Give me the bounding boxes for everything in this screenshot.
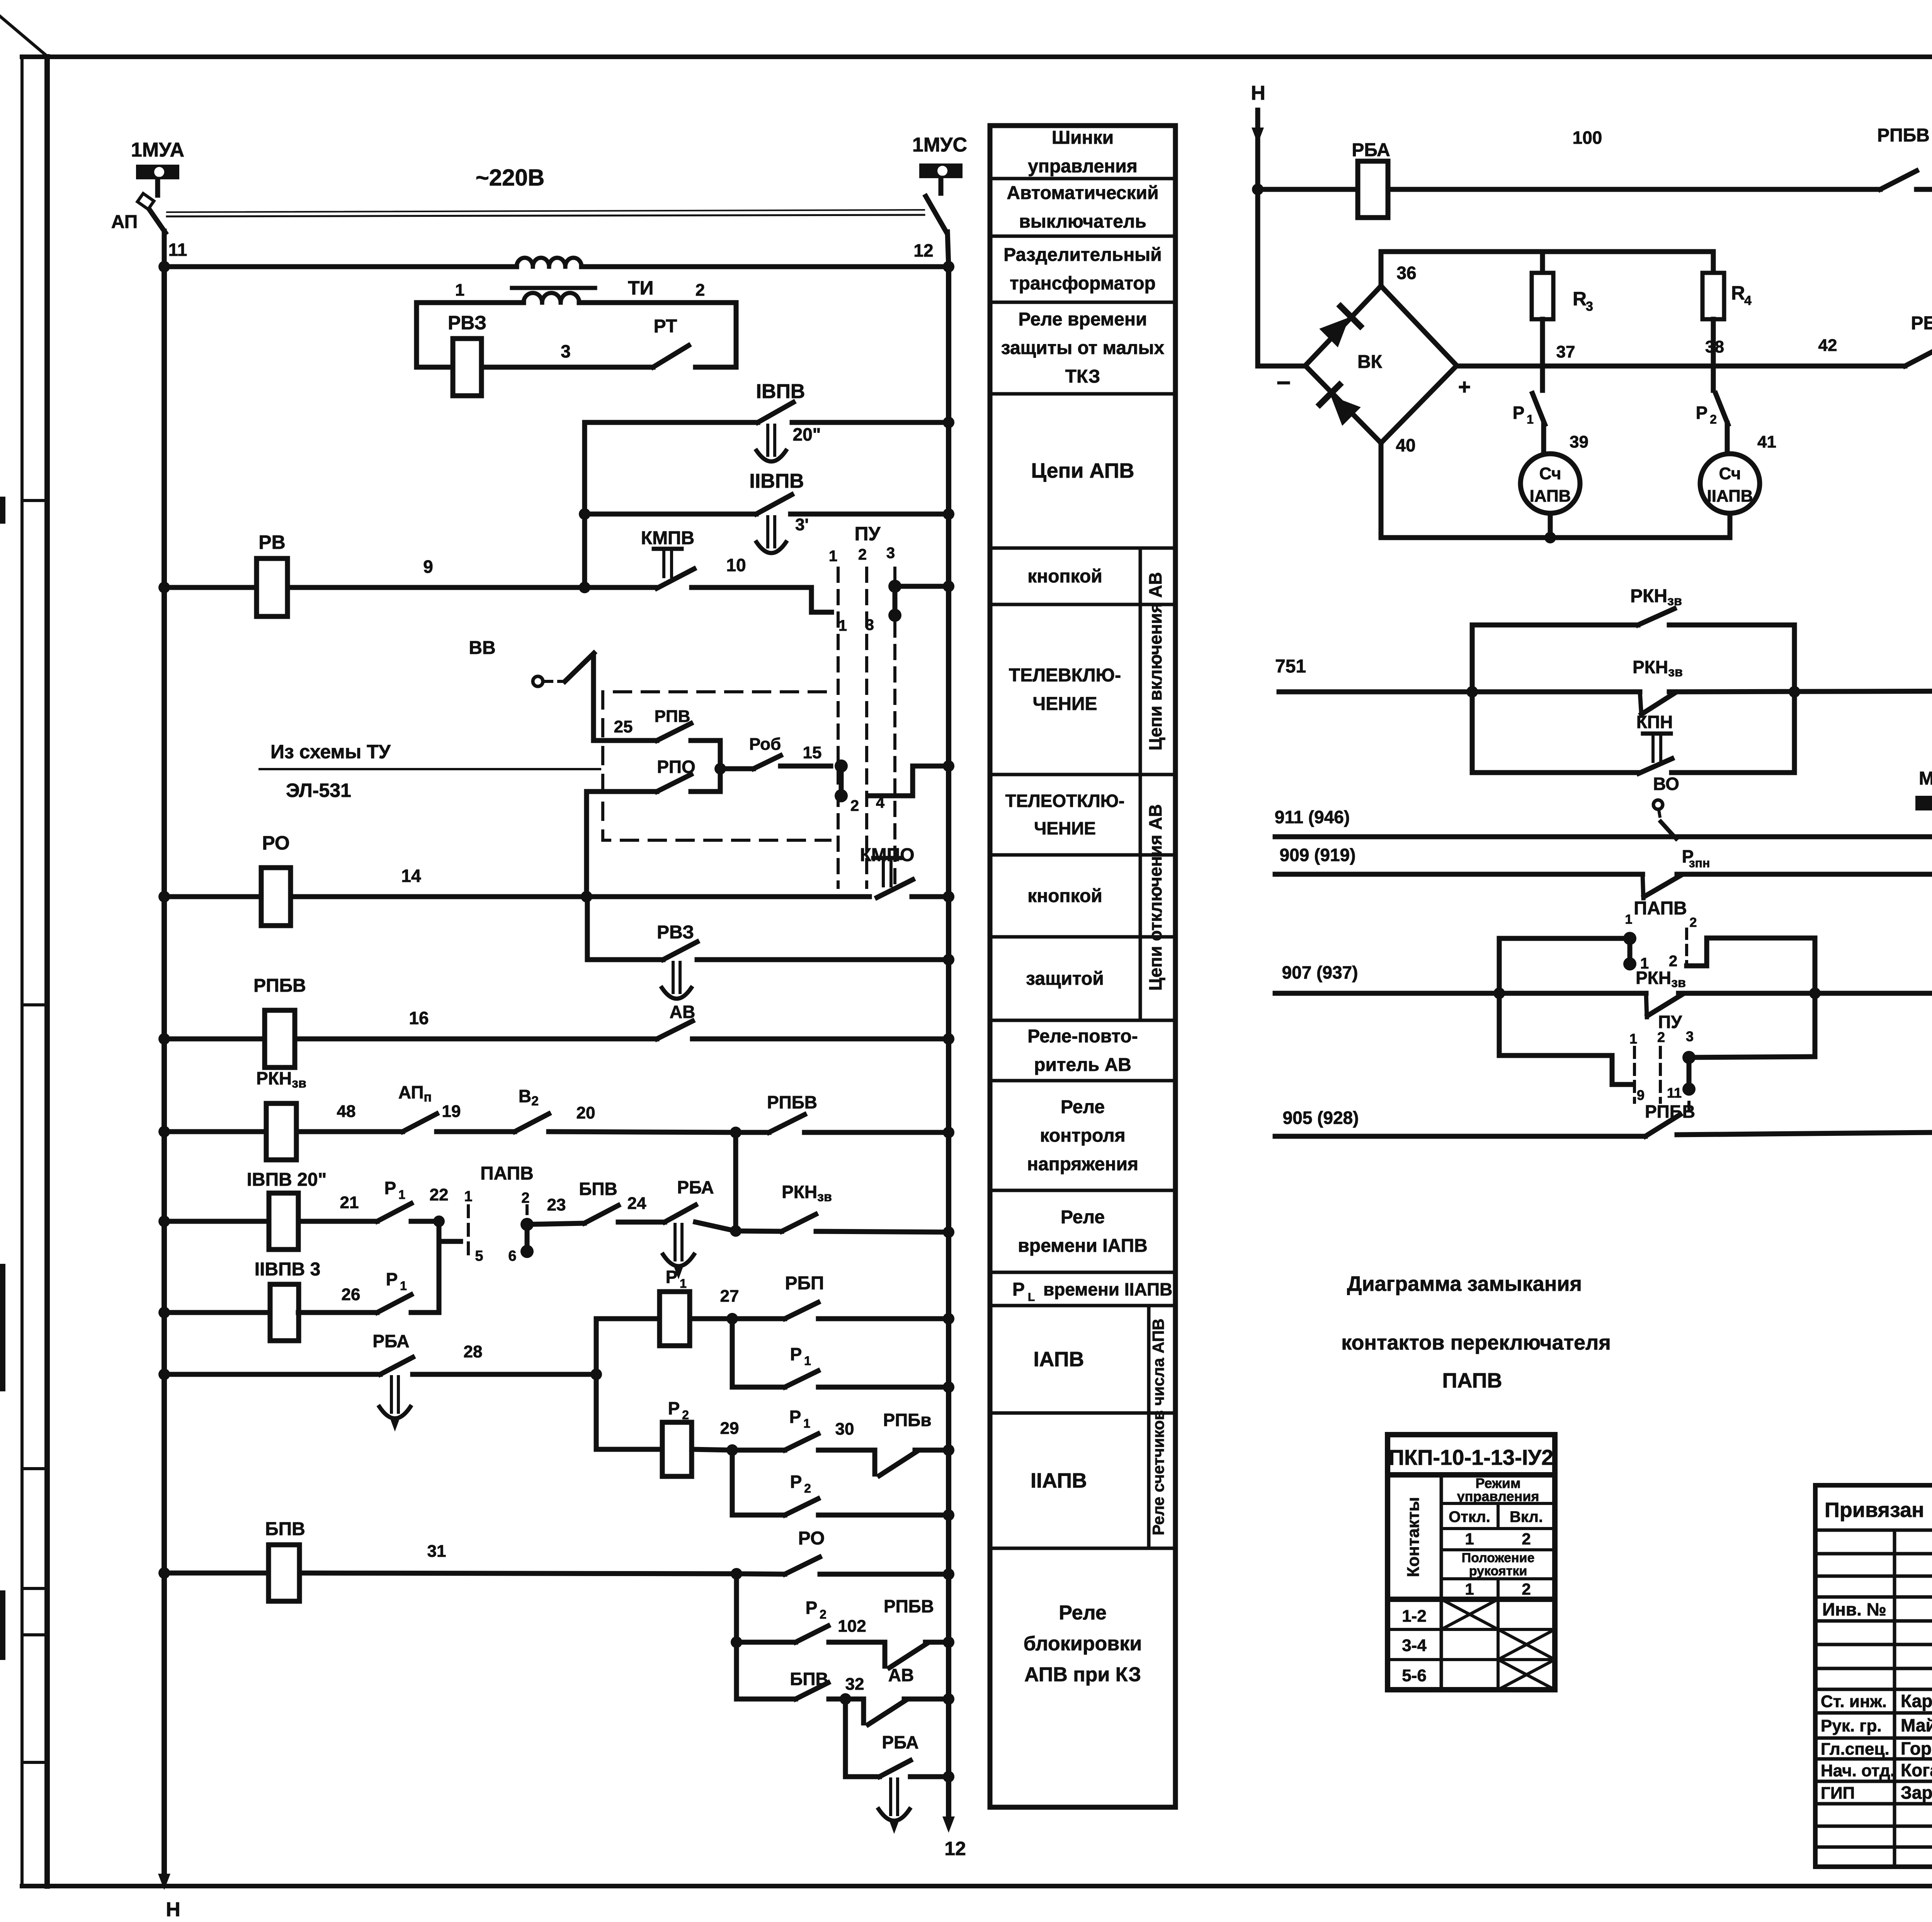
svg-text:2: 2: [521, 1190, 529, 1206]
svg-text:2: 2: [1657, 1029, 1665, 1045]
svg-text:IАПВ: IАПВ: [1530, 487, 1571, 506]
svg-text:Рук. гр.: Рук. гр.: [1821, 1716, 1882, 1735]
svg-text:2: 2: [858, 546, 867, 563]
contact Р2 row: [732, 1450, 785, 1515]
svg-text:ТЕЛЕОТКЛЮ-: ТЕЛЕОТКЛЮ-: [1005, 791, 1125, 811]
svg-text:Шинки: Шинки: [1052, 128, 1114, 148]
ПУ output wire: [1689, 1057, 1815, 1057]
svg-text:+: +: [1458, 375, 1471, 399]
ПАПВ contact bridge 2-6: [520, 1218, 534, 1231]
svg-text:времени IАПВ: времени IАПВ: [1018, 1236, 1147, 1256]
svg-text:Реле счетчиков числа АПВ: Реле счетчиков числа АПВ: [1149, 1319, 1167, 1536]
svg-text:РБА: РБА: [677, 1177, 714, 1197]
svg-text:19: 19: [442, 1102, 461, 1121]
rung 11: wire left bus to ТИ: [164, 264, 517, 269]
svg-text:ПУ: ПУ: [854, 523, 881, 545]
svg-text:3': 3': [795, 515, 809, 534]
svg-text:Вкл.: Вкл.: [1510, 1508, 1543, 1525]
scan artifact: left paper edge marks: [0, 497, 5, 524]
svg-text:1: 1: [680, 1277, 687, 1290]
svg-text:1-2: 1-2: [1402, 1607, 1427, 1626]
right bus: [946, 267, 951, 1816]
svg-text:20": 20": [793, 424, 821, 444]
svg-text:30: 30: [835, 1420, 854, 1439]
svg-text:Разделительный: Разделительный: [1003, 245, 1162, 265]
svg-text:КПН: КПН: [1636, 712, 1673, 732]
svg-text:26: 26: [342, 1285, 361, 1304]
svg-text:Реле времени: Реле времени: [1019, 309, 1147, 330]
svg-text:Р: Р: [790, 1344, 802, 1364]
vertical РПО to РО rung: [584, 792, 589, 897]
svg-text:контроля: контроля: [1040, 1125, 1125, 1146]
resistor feed line: [1381, 249, 1713, 254]
bracket vertical 2930-3185: [733, 1132, 738, 1231]
svg-text:IIАПВ: IIАПВ: [1707, 487, 1753, 506]
svg-text:РБА: РБА: [1352, 140, 1390, 160]
svg-text:9: 9: [423, 557, 433, 577]
svg-text:22: 22: [430, 1185, 449, 1204]
svg-text:РБП: РБП: [1911, 313, 1932, 334]
ПАПВ table header box ПКП-10-1-13-IУ2: [1388, 1435, 1555, 1475]
svg-text:IВПВ: IВПВ: [756, 380, 805, 403]
svg-text:Нач. отд.: Нач. отд.: [1821, 1761, 1895, 1780]
svg-text:12: 12: [913, 240, 933, 260]
svg-text:1: 1: [1465, 1530, 1474, 1548]
junction РБА coil wire: [1252, 184, 1264, 195]
vertical to lower rows: [734, 1574, 739, 1699]
svg-text:ГИП: ГИП: [1821, 1784, 1855, 1803]
svg-text:ВВ: ВВ: [469, 638, 495, 658]
svg-text:2: 2: [804, 1481, 811, 1495]
relay coil Р1: [596, 1316, 660, 1321]
relay coil Р2: [596, 1447, 662, 1452]
svg-text:напряжения: напряжения: [1027, 1154, 1138, 1175]
svg-text:11: 11: [1667, 1085, 1682, 1101]
svg-text:ПАПВ: ПАПВ: [1442, 1369, 1502, 1392]
svg-text:Коган: Коган: [1901, 1760, 1932, 1780]
svg-text:Из схемы ТУ: Из схемы ТУ: [270, 741, 391, 763]
svg-text:Привязан: Привязан: [1825, 1498, 1924, 1522]
svg-text:ТКЗ: ТКЗ: [1065, 366, 1100, 387]
sheet frame border: [20, 57, 24, 1886]
ПУ contact bridge 2-4: [835, 759, 848, 773]
svg-text:16: 16: [409, 1008, 429, 1028]
svg-text:МТС: МТС: [1919, 768, 1932, 789]
sub-column divider Цепи включения АВ: [1139, 548, 1142, 775]
svg-text:11: 11: [168, 240, 187, 260]
dashed telemechanics box: [603, 692, 830, 840]
svg-text:Р: Р: [1696, 403, 1708, 423]
wire ПУ to right bus: [895, 584, 949, 589]
svg-text:трансформатор: трансформатор: [1010, 273, 1156, 294]
bridge plus rail: [1457, 364, 1905, 369]
svg-text:блокировки: блокировки: [1024, 1633, 1142, 1655]
ТИ secondary loop: [417, 303, 524, 367]
svg-text:36: 36: [1396, 263, 1416, 283]
svg-text:кнопкой: кнопкой: [1027, 566, 1102, 587]
svg-text:РВ: РВ: [259, 531, 285, 553]
svg-text:24: 24: [628, 1194, 646, 1213]
svg-text:3: 3: [561, 341, 571, 361]
svg-text:Ст. инж.: Ст. инж.: [1821, 1692, 1887, 1711]
svg-text:Гл.спец.: Гл.спец.: [1821, 1740, 1889, 1759]
svg-text:Р: Р: [806, 1598, 818, 1618]
svg-text:Р: Р: [1513, 403, 1525, 423]
svg-text:3-4: 3-4: [1402, 1636, 1427, 1655]
sub-column divider Реле счетчиков числа АПВ: [1147, 1306, 1151, 1548]
svg-text:~220В: ~220В: [476, 165, 544, 191]
svg-text:РВЗ: РВЗ: [657, 922, 694, 943]
svg-text:Н: Н: [1251, 82, 1265, 104]
svg-text:5-6: 5-6: [1402, 1666, 1427, 1685]
svg-text:IIВПВ 3: IIВПВ 3: [255, 1259, 321, 1280]
junction IВПВ rung: [730, 1225, 742, 1237]
svg-text:IIВПВ: IIВПВ: [749, 470, 804, 492]
svg-text:1: 1: [803, 1416, 810, 1430]
wire ПУ-4 to right bus: [869, 766, 949, 796]
svg-text:КМПО: КМПО: [860, 845, 914, 865]
rung 31: БПВ coil: [158, 1567, 170, 1579]
svg-text:Диаграмма замыкания: Диаграмма замыкания: [1347, 1272, 1582, 1296]
contact Р1 row: [732, 1319, 785, 1387]
ПУ contact bridge 3-11: [1682, 1051, 1696, 1064]
svg-text:2: 2: [696, 281, 705, 300]
junction Роб branch: [714, 763, 726, 775]
svg-text:Сч: Сч: [1719, 464, 1741, 483]
svg-text:905 (928): 905 (928): [1283, 1108, 1359, 1128]
svg-text:ритель АВ: ритель АВ: [1034, 1055, 1131, 1075]
svg-text:ТЕЛЕВКЛЮ-: ТЕЛЕВКЛЮ-: [1009, 665, 1121, 686]
svg-text:907 (937): 907 (937): [1282, 962, 1358, 982]
ПУ feed step: [1499, 1055, 1631, 1084]
svg-text:1МУС: 1МУС: [912, 134, 967, 156]
svg-text:Откл.: Откл.: [1449, 1508, 1490, 1525]
svg-text:21: 21: [340, 1193, 359, 1212]
svg-text:РВЗ: РВЗ: [448, 312, 486, 334]
РКНзв bypass bracket (upper): [1466, 686, 1478, 698]
bracket vertical for ВПВ contacts: [582, 422, 587, 587]
svg-text:Р: Р: [386, 1269, 398, 1289]
junction РО row: [731, 1568, 742, 1580]
svg-text:Сч: Сч: [1539, 464, 1561, 483]
left function table frame: [990, 126, 1175, 1807]
svg-text:1: 1: [464, 1188, 472, 1205]
svg-text:контактов переключателя: контактов переключателя: [1341, 1331, 1611, 1354]
svg-text:25: 25: [614, 717, 633, 736]
svg-text:Р: Р: [666, 1267, 678, 1287]
svg-text:ЭЛ-531: ЭЛ-531: [286, 780, 351, 801]
rung 26: IIВПВ coil: [158, 1307, 170, 1318]
svg-text:Контакты: Контакты: [1404, 1497, 1423, 1577]
svg-text:Инв. №: Инв. №: [1822, 1599, 1886, 1619]
counters bottom rail: [1381, 443, 1730, 538]
svg-text:1: 1: [1625, 912, 1633, 927]
svg-text:ПАПВ: ПАПВ: [1634, 898, 1687, 919]
wire to node 12: [947, 232, 949, 267]
svg-text:2: 2: [1669, 953, 1677, 970]
svg-text:ЧЕНИЕ: ЧЕНИЕ: [1034, 818, 1096, 838]
svg-text:АВ: АВ: [888, 1665, 914, 1685]
svg-text:23: 23: [547, 1195, 566, 1214]
svg-text:28: 28: [464, 1342, 483, 1361]
rung 9: left bus to РВ: [158, 582, 170, 593]
svg-text:14: 14: [401, 866, 421, 886]
bridge minus wire: [1258, 364, 1305, 369]
svg-text:−: −: [1276, 369, 1291, 397]
wire ТИ to node 12: [582, 264, 949, 269]
junction node 28: [590, 1369, 602, 1380]
svg-text:1: 1: [400, 1279, 407, 1293]
svg-text:Цепи отключения АВ: Цепи отключения АВ: [1145, 804, 1165, 991]
svg-text:РПБВ: РПБВ: [1877, 125, 1930, 146]
svg-text:37: 37: [1556, 342, 1575, 361]
vertical to РБА row: [843, 1699, 848, 1777]
svg-text:1МУА: 1МУА: [131, 139, 184, 161]
junction РО rung: [581, 891, 592, 902]
svg-text:защиты от малых: защиты от малых: [1001, 338, 1165, 358]
wire up to node 22: [411, 1221, 439, 1313]
svg-text:911 (946): 911 (946): [1275, 807, 1350, 827]
svg-text:27: 27: [720, 1287, 739, 1306]
sub-column divider Цепи отключения АВ: [1139, 775, 1142, 1020]
svg-text:Цепи включения АВ: Цепи включения АВ: [1145, 572, 1165, 751]
left bus: [162, 267, 167, 1874]
svg-text:ПАПВ: ПАПВ: [480, 1163, 534, 1184]
svg-text:Н: Н: [166, 1898, 180, 1921]
svg-text:IIАПВ: IIАПВ: [1031, 1469, 1087, 1492]
svg-text:IВПВ 20": IВПВ 20": [247, 1170, 327, 1190]
ПАПВ table header grid: [1388, 1475, 1555, 1599]
svg-text:РО: РО: [262, 832, 290, 854]
svg-text:кнопкой: кнопкой: [1027, 886, 1102, 906]
svg-text:29: 29: [720, 1419, 739, 1438]
svg-text:31: 31: [427, 1542, 446, 1561]
svg-text:РПБВ: РПБВ: [767, 1092, 817, 1112]
svg-text:Р: Р: [668, 1398, 680, 1418]
svg-text:РБА: РБА: [372, 1331, 409, 1351]
svg-text:ТИ: ТИ: [628, 277, 653, 299]
svg-text:РПБВ: РПБВ: [884, 1596, 934, 1616]
svg-text:РПВ: РПВ: [655, 707, 690, 726]
svg-text:времени IIАПВ: времени IIАПВ: [1043, 1279, 1172, 1299]
svg-text:БПВ: БПВ: [579, 1179, 617, 1199]
bridge top connection: [1379, 252, 1384, 286]
svg-text:Р: Р: [384, 1178, 396, 1198]
svg-text:защитой: защитой: [1026, 969, 1104, 989]
РВЗ branch vertical: [585, 897, 590, 960]
svg-text:909 (919): 909 (919): [1280, 845, 1356, 865]
rung 16: РПБВ coil: [158, 1033, 170, 1045]
step to ПАПВ switch: [439, 1221, 461, 1241]
svg-text:рукоятки: рукоятки: [1469, 1564, 1527, 1578]
svg-text:39: 39: [1570, 432, 1588, 451]
svg-text:Майстровая: Майстровая: [1901, 1715, 1932, 1735]
ПАПВ table body: [1388, 1599, 1555, 1690]
rung 14: РО: [158, 891, 170, 902]
svg-text:ВО: ВО: [1653, 774, 1679, 794]
svg-text:Р: Р: [789, 1407, 801, 1427]
svg-text:2: 2: [820, 1607, 827, 1621]
svg-text:Реле: Реле: [1059, 1602, 1107, 1624]
svg-text:РБП: РБП: [785, 1273, 824, 1294]
svg-text:751: 751: [1275, 656, 1306, 677]
svg-text:1: 1: [829, 548, 837, 565]
svg-text:2: 2: [1522, 1530, 1531, 1548]
svg-text:РТ: РТ: [654, 316, 677, 337]
svg-text:6: 6: [508, 1248, 516, 1264]
Привязан table frame: [1815, 1485, 1932, 1867]
svg-text:выключатель: выключатель: [1019, 211, 1146, 232]
svg-text:15: 15: [803, 743, 822, 762]
svg-text:42: 42: [1818, 336, 1837, 355]
rung 21: IВПВ coil: [158, 1216, 170, 1227]
svg-text:2: 2: [1710, 412, 1717, 426]
scan artifact: top-left paper corner: [0, 16, 46, 55]
svg-text:Автоматический: Автоматический: [1007, 183, 1158, 203]
svg-text:АП: АП: [111, 212, 138, 232]
svg-text:Роб: Роб: [749, 735, 781, 754]
svg-text:3: 3: [886, 545, 895, 562]
svg-text:Р: Р: [1012, 1279, 1025, 1300]
ПУ contact bridge 1-3: [888, 580, 901, 593]
svg-text:3: 3: [1586, 299, 1593, 314]
svg-text:41: 41: [1757, 432, 1776, 451]
svg-text:102: 102: [838, 1617, 866, 1636]
svg-text:Каретин: Каретин: [1901, 1691, 1932, 1711]
ПАПВ contact bridge 1: [1623, 932, 1636, 945]
switch at 1МУС: [926, 196, 947, 233]
wire АП to node 11: [162, 231, 167, 267]
contact Р2 102 РПБВ row: [731, 1636, 742, 1648]
svg-text:1: 1: [455, 281, 464, 300]
svg-text:2: 2: [850, 797, 859, 814]
svg-text:20: 20: [577, 1103, 595, 1122]
svg-text:РБА: РБА: [882, 1732, 918, 1752]
svg-text:Реле: Реле: [1061, 1097, 1105, 1117]
svg-text:12: 12: [944, 1838, 966, 1859]
svg-text:3: 3: [1686, 1028, 1694, 1044]
svg-text:Р: Р: [790, 1472, 802, 1492]
svg-text:3: 3: [866, 616, 874, 633]
svg-text:ВК: ВК: [1357, 352, 1383, 372]
junction on rung 9: [579, 582, 590, 593]
svg-text:IАПВ: IАПВ: [1033, 1348, 1084, 1371]
svg-text:1: 1: [804, 1354, 811, 1368]
svg-text:4: 4: [1744, 293, 1752, 308]
svg-text:5: 5: [475, 1248, 483, 1264]
svg-text:Положение: Положение: [1462, 1551, 1535, 1565]
svg-text:2: 2: [1522, 1580, 1531, 1598]
svg-text:КМПВ: КМПВ: [641, 528, 694, 548]
rung 48: РКНзв coil: [158, 1126, 170, 1137]
left bracket vertical: [1497, 938, 1502, 1055]
svg-text:R: R: [1573, 288, 1587, 310]
svg-text:100: 100: [1573, 128, 1602, 148]
bracket vertical Р1/Р2 coils: [594, 1319, 599, 1449]
svg-text:Цепи АПВ: Цепи АПВ: [1031, 459, 1134, 482]
svg-text:32: 32: [845, 1675, 864, 1694]
svg-text:1: 1: [1527, 412, 1534, 426]
svg-text:АПВ при КЗ: АПВ при КЗ: [1024, 1663, 1141, 1686]
svg-text:РПБв: РПБв: [883, 1410, 931, 1430]
svg-text:1: 1: [1629, 1031, 1637, 1047]
svg-text:РО: РО: [798, 1528, 825, 1549]
junction РКНзв rung: [730, 1127, 742, 1138]
svg-text:9: 9: [1637, 1087, 1645, 1103]
КПН bypass bracket (lower): [1470, 692, 1475, 773]
svg-text:1: 1: [1465, 1580, 1474, 1598]
svg-text:управления: управления: [1028, 156, 1138, 177]
svg-text:ЧЕНИЕ: ЧЕНИЕ: [1033, 694, 1097, 714]
svg-text:1: 1: [838, 617, 847, 634]
svg-text:БПВ: БПВ: [265, 1519, 305, 1539]
svg-text:L: L: [1028, 1291, 1035, 1304]
svg-text:Зарецкий: Зарецкий: [1901, 1782, 1932, 1803]
svg-text:РПБВ: РПБВ: [253, 975, 306, 996]
svg-text:управления: управления: [1457, 1488, 1539, 1504]
svg-text:40: 40: [1396, 435, 1415, 455]
svg-text:10: 10: [726, 555, 746, 575]
svg-text:R: R: [1731, 282, 1745, 304]
ПАПВ bracket top line: [1499, 936, 1630, 941]
svg-text:Гороховский: Гороховский: [1901, 1738, 1932, 1759]
rung 28: РБА: [158, 1369, 170, 1380]
svg-text:ПКП-10-1-13-IУ2: ПКП-10-1-13-IУ2: [1389, 1445, 1554, 1469]
svg-text:зпн: зпн: [1689, 856, 1710, 870]
ПАПВ-2 bypass wire: [1687, 938, 1815, 1057]
svg-text:1: 1: [398, 1188, 405, 1202]
svg-text:48: 48: [337, 1102, 356, 1121]
svg-text:2: 2: [1690, 915, 1697, 930]
svg-text:Реле: Реле: [1061, 1207, 1105, 1227]
svg-text:Реле-повто-: Реле-повто-: [1027, 1026, 1138, 1047]
